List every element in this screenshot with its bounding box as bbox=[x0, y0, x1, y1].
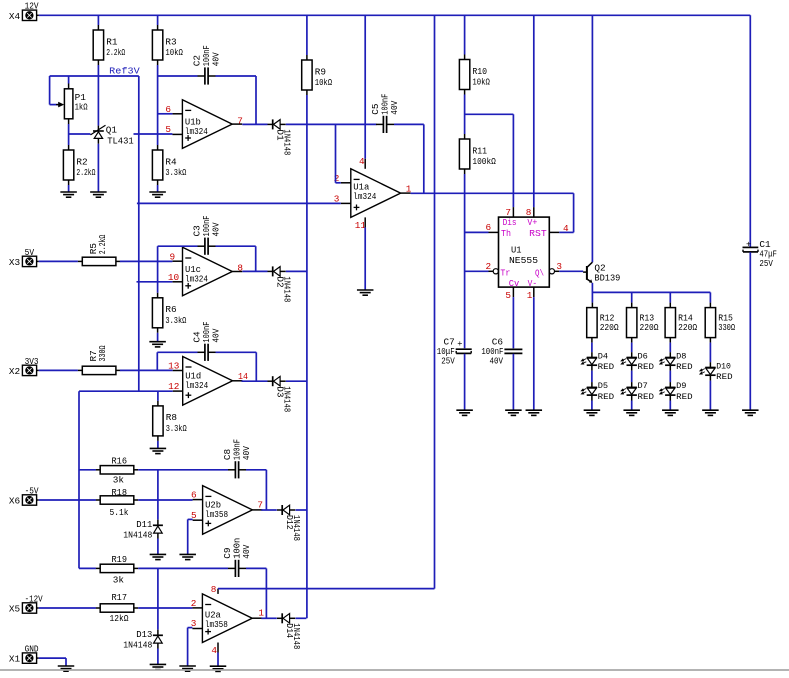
svg-text:3.3kΩ: 3.3kΩ bbox=[165, 315, 186, 326]
svg-text:12kΩ: 12kΩ bbox=[110, 613, 129, 624]
svg-text:Tr: Tr bbox=[500, 267, 510, 278]
svg-text:-12V: -12V bbox=[25, 593, 43, 604]
svg-text:25V: 25V bbox=[441, 356, 455, 367]
svg-text:BD139: BD139 bbox=[594, 272, 620, 283]
svg-text:1: 1 bbox=[258, 608, 264, 619]
svg-text:40V: 40V bbox=[210, 328, 221, 342]
svg-text:1N4148: 1N4148 bbox=[282, 276, 293, 302]
svg-text:GND: GND bbox=[25, 644, 39, 655]
svg-text:40V: 40V bbox=[210, 222, 221, 236]
svg-text:lm358: lm358 bbox=[205, 509, 228, 520]
svg-text:40V: 40V bbox=[389, 100, 400, 114]
svg-text:1N4148: 1N4148 bbox=[123, 529, 152, 540]
svg-text:R4: R4 bbox=[165, 156, 177, 167]
svg-text:RED: RED bbox=[676, 362, 693, 372]
svg-text:2.2kΩ: 2.2kΩ bbox=[97, 234, 108, 254]
svg-text:40V: 40V bbox=[210, 52, 221, 66]
svg-text:1N4148: 1N4148 bbox=[291, 623, 302, 649]
svg-text:25V: 25V bbox=[759, 258, 773, 269]
svg-text:Ref3V: Ref3V bbox=[109, 65, 140, 76]
svg-text:7: 7 bbox=[257, 500, 263, 511]
svg-text:D10: D10 bbox=[716, 361, 731, 371]
svg-text:220Ω: 220Ω bbox=[678, 322, 697, 333]
svg-text:10kΩ: 10kΩ bbox=[472, 77, 490, 88]
svg-text:1: 1 bbox=[527, 290, 533, 301]
svg-text:X3: X3 bbox=[9, 257, 21, 268]
svg-text:8: 8 bbox=[526, 207, 532, 218]
svg-text:5.1k: 5.1k bbox=[110, 507, 129, 518]
svg-text:6: 6 bbox=[486, 222, 492, 233]
svg-text:R19: R19 bbox=[112, 554, 128, 565]
svg-text:X6: X6 bbox=[9, 496, 21, 507]
svg-text:220Ω: 220Ω bbox=[640, 322, 659, 333]
svg-text:4: 4 bbox=[563, 223, 569, 234]
svg-text:Dis: Dis bbox=[503, 217, 517, 228]
svg-text:2: 2 bbox=[486, 261, 492, 272]
svg-text:13: 13 bbox=[168, 360, 180, 371]
svg-text:R6: R6 bbox=[165, 304, 177, 315]
svg-text:D4: D4 bbox=[598, 351, 608, 361]
svg-text:Q1: Q1 bbox=[106, 125, 118, 136]
svg-text:12V: 12V bbox=[25, 1, 39, 12]
svg-text:8: 8 bbox=[211, 584, 217, 595]
svg-text:V+: V+ bbox=[527, 217, 537, 228]
svg-text:4: 4 bbox=[211, 645, 217, 656]
svg-text:1N4148: 1N4148 bbox=[282, 129, 293, 155]
svg-text:1kΩ: 1kΩ bbox=[75, 102, 88, 113]
svg-text:Cv: Cv bbox=[509, 278, 520, 289]
svg-text:10kΩ: 10kΩ bbox=[315, 77, 333, 88]
svg-text:3V3: 3V3 bbox=[25, 356, 39, 367]
svg-text:RED: RED bbox=[638, 362, 655, 372]
svg-text:1N4148: 1N4148 bbox=[282, 386, 293, 412]
svg-text:3.3kΩ: 3.3kΩ bbox=[166, 423, 187, 434]
svg-text:6: 6 bbox=[191, 490, 197, 501]
svg-text:40V: 40V bbox=[490, 356, 504, 367]
svg-text:3.3kΩ: 3.3kΩ bbox=[165, 167, 186, 178]
svg-text:10kΩ: 10kΩ bbox=[165, 47, 183, 58]
svg-text:R17: R17 bbox=[112, 592, 128, 603]
svg-text:R18: R18 bbox=[112, 487, 128, 498]
svg-text:1N4148: 1N4148 bbox=[123, 639, 152, 650]
svg-text:3k: 3k bbox=[113, 475, 125, 486]
svg-text:lm324: lm324 bbox=[353, 191, 376, 202]
svg-text:NE555: NE555 bbox=[509, 255, 538, 266]
svg-text:D8: D8 bbox=[676, 351, 686, 361]
svg-text:2: 2 bbox=[191, 598, 197, 609]
svg-text:V-: V- bbox=[528, 278, 538, 289]
svg-text:Th: Th bbox=[501, 228, 511, 239]
svg-text:330Ω: 330Ω bbox=[97, 345, 108, 361]
svg-text:+: + bbox=[746, 240, 751, 250]
svg-text:RED: RED bbox=[716, 372, 733, 382]
svg-text:R9: R9 bbox=[315, 66, 326, 77]
svg-text:TL431: TL431 bbox=[107, 136, 134, 147]
svg-text:R1: R1 bbox=[106, 36, 118, 47]
svg-text:lm324: lm324 bbox=[185, 126, 208, 137]
svg-text:1N4148: 1N4148 bbox=[291, 515, 302, 541]
svg-text:40V: 40V bbox=[241, 446, 252, 460]
svg-text:D7: D7 bbox=[638, 381, 648, 391]
svg-text:5: 5 bbox=[505, 290, 511, 301]
svg-text:3: 3 bbox=[556, 261, 562, 272]
svg-text:X2: X2 bbox=[9, 366, 20, 377]
svg-text:220Ω: 220Ω bbox=[600, 322, 619, 333]
svg-text:R11: R11 bbox=[472, 145, 487, 156]
svg-text:40V: 40V bbox=[241, 544, 252, 558]
svg-text:R10: R10 bbox=[472, 66, 487, 77]
svg-text:4: 4 bbox=[359, 156, 365, 167]
svg-text:RED: RED bbox=[638, 392, 655, 402]
svg-text:330Ω: 330Ω bbox=[718, 322, 735, 333]
svg-text:R3: R3 bbox=[165, 36, 177, 47]
svg-text:5V: 5V bbox=[25, 247, 35, 258]
svg-text:2.2kΩ: 2.2kΩ bbox=[76, 167, 95, 178]
svg-text:9: 9 bbox=[170, 252, 176, 263]
svg-text:D6: D6 bbox=[638, 351, 648, 361]
svg-text:RED: RED bbox=[598, 362, 615, 372]
svg-text:X5: X5 bbox=[9, 604, 21, 615]
svg-text:lm324: lm324 bbox=[185, 380, 208, 391]
svg-text:Q\: Q\ bbox=[535, 267, 544, 278]
svg-text:RED: RED bbox=[676, 392, 693, 402]
svg-text:D9: D9 bbox=[676, 381, 686, 391]
svg-text:+: + bbox=[457, 339, 462, 349]
svg-text:RST: RST bbox=[529, 228, 547, 239]
svg-text:7: 7 bbox=[505, 207, 511, 218]
svg-text:R2: R2 bbox=[76, 156, 87, 167]
svg-text:R8: R8 bbox=[166, 412, 178, 423]
svg-text:7: 7 bbox=[237, 115, 243, 126]
svg-text:lm324: lm324 bbox=[185, 273, 208, 284]
svg-text:RED: RED bbox=[598, 392, 615, 402]
svg-text:X1: X1 bbox=[9, 654, 21, 665]
svg-text:2.2kΩ: 2.2kΩ bbox=[106, 47, 125, 58]
svg-text:lm358: lm358 bbox=[205, 619, 228, 630]
svg-text:-5V: -5V bbox=[25, 485, 39, 496]
svg-text:D5: D5 bbox=[598, 381, 608, 391]
svg-text:3k: 3k bbox=[113, 575, 125, 586]
svg-text:100kΩ: 100kΩ bbox=[472, 156, 496, 167]
svg-text:X4: X4 bbox=[9, 11, 21, 22]
svg-text:R16: R16 bbox=[112, 455, 128, 466]
